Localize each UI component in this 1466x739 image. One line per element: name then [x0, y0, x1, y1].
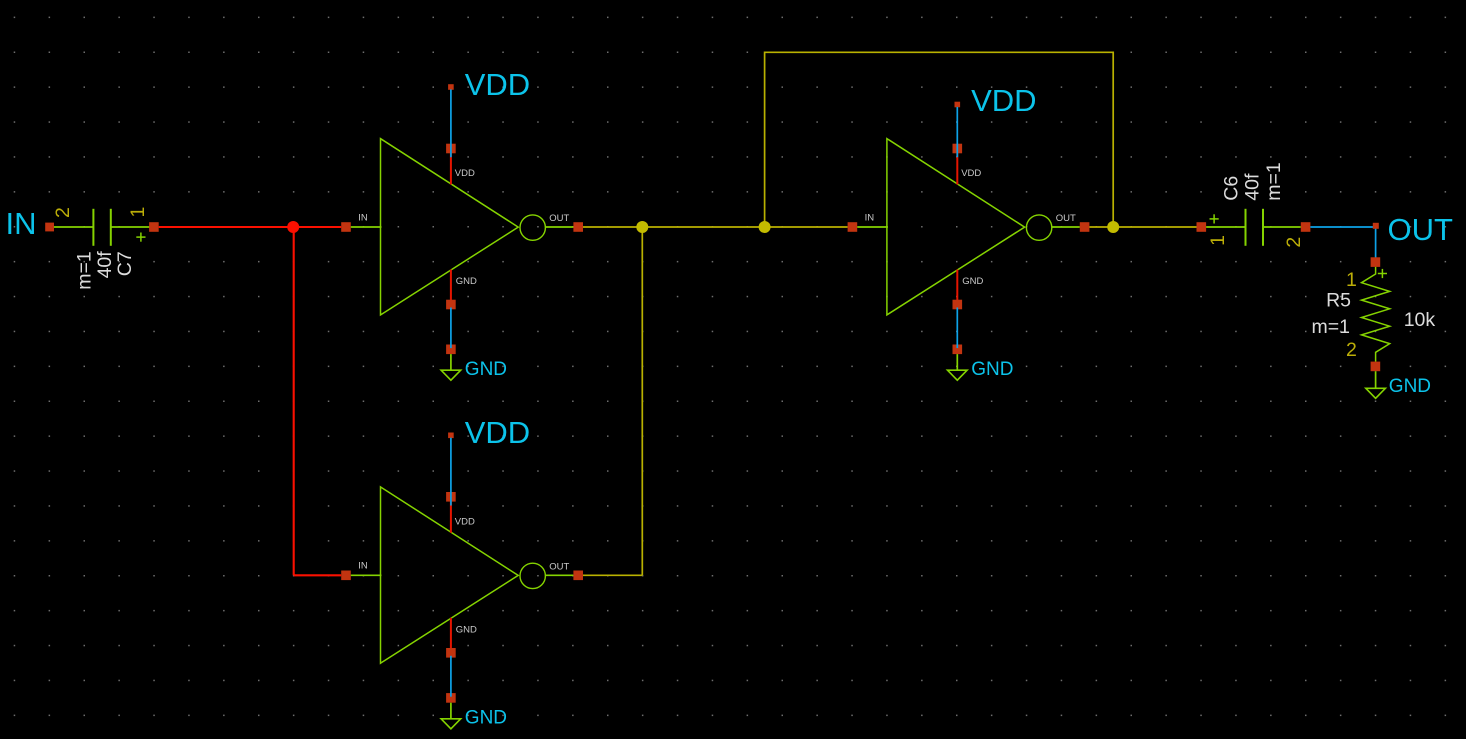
U2 VDD pin square: [953, 144, 963, 154]
wire yellow net U1 output to U2 input: [583, 226, 848, 228]
U1 VDD pin stub (red): [450, 152, 452, 185]
wire U1 output stub: [545, 226, 573, 228]
wire yellow net horizontal at U3 output: [583, 574, 642, 576]
svg-text:m=1: m=1: [74, 251, 96, 289]
svg-text:VDD: VDD: [961, 168, 981, 179]
ground symbol stem at U1: [450, 354, 452, 370]
ground symbol at U2: [948, 370, 968, 380]
svg-text:C6: C6: [1220, 176, 1242, 201]
svg-text:10k: 10k: [1404, 309, 1436, 331]
svg-text:OUT: OUT: [549, 562, 569, 573]
wire yellow feedback loop: [765, 52, 1114, 227]
wire red net horizontal to inverter U1: [159, 226, 342, 228]
svg-text:IN: IN: [6, 206, 37, 241]
svg-text:40f: 40f: [1242, 173, 1264, 201]
junction node B: [759, 221, 771, 233]
inverter U1 triangle body: [381, 139, 519, 315]
ground pin square at U3: [446, 693, 456, 703]
svg-text:VDD: VDD: [465, 415, 530, 450]
capacitor C7 right plate: [110, 209, 112, 246]
svg-text:1: 1: [1207, 235, 1229, 246]
svg-text:IN: IN: [358, 561, 368, 572]
ground symbol stem at U2: [956, 354, 958, 370]
wire GND net (blue) at U3: [450, 656, 452, 697]
svg-text:OUT: OUT: [549, 213, 569, 224]
svg-text:VDD: VDD: [455, 168, 475, 179]
inverter U1 output bubble: [520, 215, 545, 240]
inverter U3 triangle body: [381, 487, 519, 663]
power label VDD at U2 small pin square: [955, 102, 961, 108]
wire VDD net (blue) at U2: [956, 107, 958, 157]
wire red net horizontal to inverter U3: [294, 574, 342, 576]
capacitor C6 left plate: [1245, 209, 1247, 246]
svg-text:m=1: m=1: [1312, 316, 1350, 338]
wire blue OUT net horizontal: [1310, 226, 1375, 228]
wire red net vertical branch: [293, 227, 295, 575]
power label VDD at U1 small pin square: [448, 84, 454, 90]
junction node red: [287, 221, 299, 233]
inverter U2 output bubble: [1026, 215, 1051, 240]
wire U3 output stub: [545, 574, 573, 576]
capacitor C6 right plate: [1262, 209, 1264, 246]
U3 VDD pin stub (red): [450, 500, 452, 533]
ground pin square at U2: [953, 345, 963, 355]
resistor R5 bottom pin square: [1371, 362, 1381, 372]
svg-text:GND: GND: [465, 359, 507, 380]
capacitor C7 left plate: [92, 209, 94, 246]
capacitor C6 left lead: [1206, 226, 1245, 228]
net label OUT small pin square: [1373, 223, 1379, 229]
svg-text:IN: IN: [865, 212, 875, 223]
wire VDD net (blue) at U1: [450, 89, 452, 157]
U2 VDD pin stub (red): [956, 152, 958, 185]
plus polarity mark of C6: [1210, 218, 1219, 220]
wire U2 output stub: [1052, 226, 1080, 228]
svg-text:1: 1: [127, 207, 149, 218]
svg-text:OUT: OUT: [1056, 213, 1076, 224]
svg-text:C7: C7: [114, 251, 136, 276]
wire U2 input stub: [857, 226, 888, 228]
ground symbol at U1: [441, 370, 461, 380]
pin C6.1 square: [1197, 222, 1207, 232]
wire yellow net U2 output: [1089, 226, 1196, 228]
U3 GND pin square: [446, 648, 456, 658]
svg-text:m=1: m=1: [1263, 162, 1285, 200]
svg-text:GND: GND: [962, 276, 983, 287]
svg-text:VDD: VDD: [465, 67, 530, 102]
inverter U3 output pin square: [573, 571, 583, 581]
net label IN small pin square: [45, 223, 54, 232]
svg-text:40f: 40f: [94, 251, 116, 279]
svg-text:VDD: VDD: [971, 83, 1036, 118]
ground symbol at U3: [441, 719, 461, 729]
ground pin square at U1: [446, 345, 456, 355]
U2 GND pin stub (red): [956, 270, 958, 302]
ground symbol stem at U3: [450, 703, 452, 719]
svg-text:GND: GND: [456, 624, 477, 635]
pin C7.1 square: [149, 222, 159, 232]
svg-text:2: 2: [1346, 339, 1357, 361]
svg-text:GND: GND: [1389, 376, 1431, 397]
plus polarity mark of C7: [136, 236, 145, 238]
wire GND net (blue) at U2: [956, 308, 958, 349]
wire VDD net (blue) at U3: [450, 438, 452, 506]
wire blue OUT net vertical: [1375, 227, 1377, 258]
junction node A: [636, 221, 648, 233]
svg-text:OUT: OUT: [1388, 212, 1454, 247]
U3 GND pin stub (red): [450, 618, 452, 650]
capacitor C7 left lead: [54, 226, 94, 228]
svg-text:GND: GND: [971, 359, 1013, 380]
svg-text:GND: GND: [456, 276, 477, 287]
svg-text:2: 2: [1283, 237, 1305, 248]
capacitor C7 right lead: [111, 226, 150, 228]
pin C6.2 square: [1301, 222, 1311, 232]
plus polarity mark of R5: [1378, 273, 1387, 275]
wire GND net (blue) at U1: [450, 308, 452, 349]
U2 GND pin square: [953, 300, 963, 310]
resistor R5 body zigzag: [1362, 267, 1390, 362]
inverter U2 output pin square: [1080, 222, 1090, 232]
U1 GND pin square: [446, 300, 456, 310]
svg-text:GND: GND: [465, 708, 507, 729]
U3 VDD pin square: [446, 492, 456, 502]
svg-text:R5: R5: [1326, 290, 1351, 312]
svg-text:2: 2: [52, 207, 74, 218]
inverter U3 output bubble: [520, 563, 545, 588]
ground symbol at R5: [1366, 388, 1386, 398]
inverter U2 input pin square: [848, 222, 858, 232]
inverter U3 input pin square: [341, 571, 351, 581]
inverter U1 output pin square: [573, 222, 583, 232]
ground symbol stem at R5: [1375, 371, 1377, 388]
junction node C: [1107, 221, 1119, 233]
power label VDD at U3 small pin square: [448, 433, 454, 439]
resistor R5 top pin square: [1371, 257, 1381, 267]
U1 VDD pin square: [446, 144, 456, 154]
wire U3 input stub: [351, 574, 382, 576]
svg-text:VDD: VDD: [455, 516, 475, 527]
capacitor C6 right lead: [1263, 226, 1301, 228]
inverter U1 input pin square: [341, 222, 351, 232]
wire yellow net vertical to U3 output: [641, 227, 643, 575]
svg-text:1: 1: [1346, 269, 1357, 291]
inverter U2 triangle body: [887, 139, 1025, 315]
U1 GND pin stub (red): [450, 270, 452, 302]
svg-text:IN: IN: [358, 212, 368, 223]
wire U1 input stub: [351, 226, 382, 228]
